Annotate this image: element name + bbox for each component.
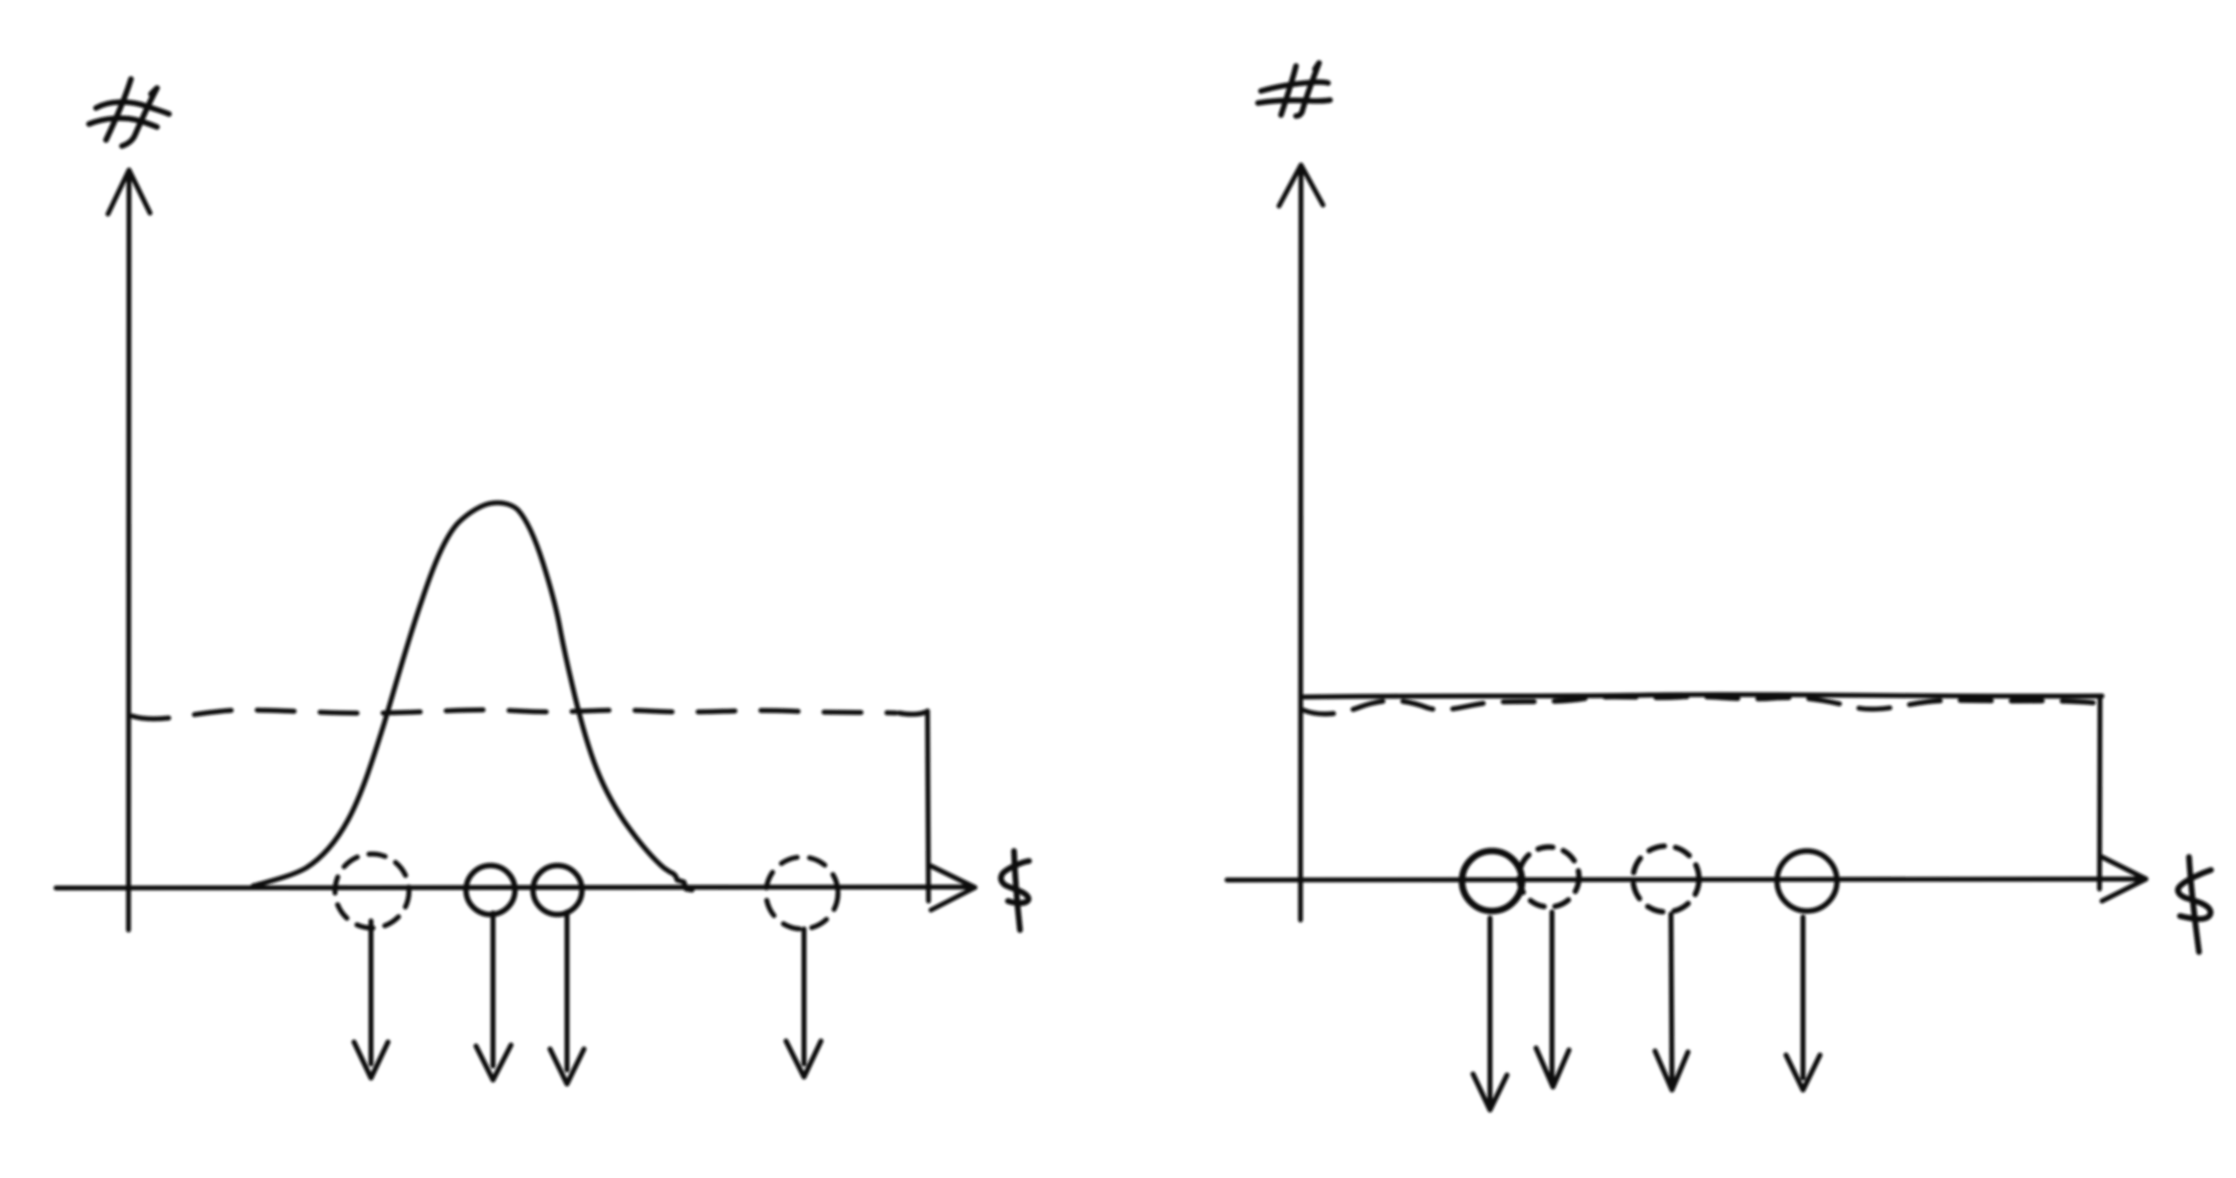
right vertical drop line — [2097, 698, 2102, 889]
left dashed circle 2 — [766, 857, 838, 929]
right x-axis — [1227, 857, 2146, 901]
right down arrow 1 — [1473, 918, 1507, 1110]
left bell curve — [253, 503, 692, 890]
right dashed circle 1 — [1519, 847, 1579, 907]
right y-axis label "#" — [1258, 63, 1330, 116]
left dashed level line — [132, 710, 896, 719]
left x-axis label "$" — [1001, 851, 1029, 930]
right down arrow 2 — [1536, 912, 1569, 1087]
left solid circle 1 — [466, 866, 515, 915]
left down arrow 1 — [354, 921, 388, 1078]
left down arrow 2 — [476, 913, 511, 1080]
left level corner dash — [899, 712, 926, 714]
right dashed circle 2 — [1633, 846, 1699, 912]
right x-axis label "$" — [2178, 857, 2211, 952]
right down arrow 4 — [1786, 917, 1820, 1090]
left down arrow 4 — [786, 929, 821, 1077]
left vertical drop line — [928, 711, 929, 901]
right dashed level line — [1303, 697, 2106, 714]
left y-axis — [108, 170, 150, 930]
right solid circle 2 — [1777, 851, 1837, 911]
right down arrow 3 — [1655, 914, 1688, 1090]
left solid circle 2 — [533, 866, 582, 915]
right y-axis — [1279, 165, 1323, 920]
left down arrow 3 — [550, 912, 584, 1084]
right solid circle 1 — [1462, 851, 1522, 911]
left y-axis label "#" — [89, 79, 169, 146]
left dashed circle 1 — [335, 854, 409, 928]
right level solid line — [1304, 694, 2102, 697]
left x-axis — [56, 866, 975, 910]
